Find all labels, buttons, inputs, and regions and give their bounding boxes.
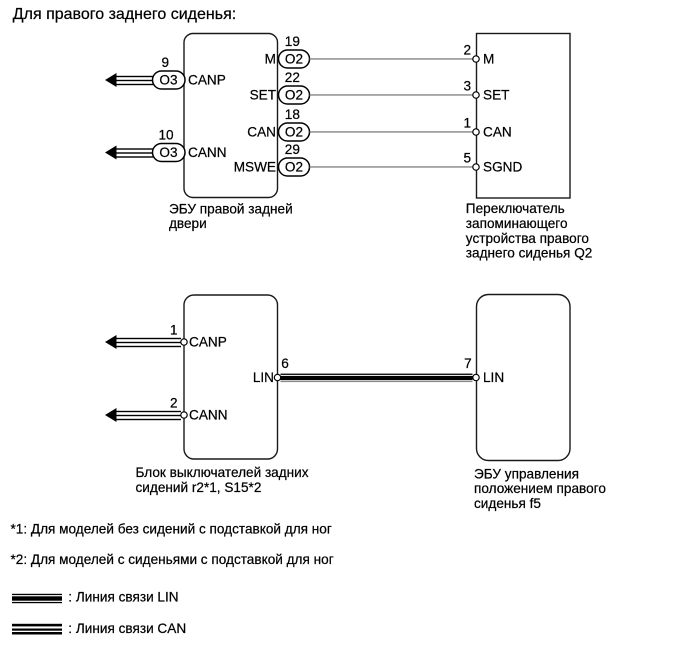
svg-text:MSWE: MSWE (234, 160, 276, 175)
wire M: pin 19 to pin 2 (310, 58, 473, 59)
svg-text:устройства правого: устройства правого (466, 231, 589, 246)
svg-text:сидений r2*1, S15*2: сидений r2*1, S15*2 (136, 480, 262, 495)
svg-text:CANN: CANN (189, 408, 228, 423)
svg-text:2: 2 (463, 43, 471, 58)
node pin 2 (block U2) (181, 412, 187, 418)
connector O2 pin 22 (SET) (279, 86, 310, 104)
block U2: Блок выключателей задних сидений (184, 295, 278, 459)
svg-text:Для правого заднего сиденья:: Для правого заднего сиденья: (13, 6, 236, 23)
block S1: Переключатель запоминающего устройства правого заднего сиденья Q2 (477, 34, 571, 199)
svg-text:CANP: CANP (188, 73, 226, 88)
wire CAN: pin 18 to pin 1 (310, 131, 473, 132)
svg-text:*1: Для моделей без сидений с: *1: Для моделей без сидений с подставкой… (11, 521, 332, 536)
block U1: ЭБУ правой задней двери (184, 34, 278, 198)
node pin 2 (block S1) (473, 56, 479, 62)
svg-text:сиденья f5: сиденья f5 (474, 496, 541, 511)
svg-text:O3: O3 (159, 145, 177, 160)
arrow CANP (CAN line out, pin 1) (105, 335, 181, 349)
svg-text:CAN: CAN (483, 125, 512, 140)
svg-text:9: 9 (162, 55, 170, 70)
wire LIN: pin 6 to pin 7 (281, 374, 473, 383)
svg-text:O3: O3 (159, 73, 177, 88)
svg-text:Блок выключателей задних: Блок выключателей задних (136, 465, 309, 480)
wire MSWE: pin 29 to pin 5 (310, 166, 473, 167)
node pin 5 (block S1) (473, 164, 479, 170)
arrow CANN (CAN line out, pin 10) (105, 146, 153, 160)
svg-text:O2: O2 (285, 125, 303, 140)
svg-text:CANN: CANN (188, 145, 227, 160)
svg-text:запоминающего: запоминающего (466, 216, 568, 231)
node pin 1 (block U2) (181, 339, 187, 345)
arrow CANN (CAN line out, pin 2) (105, 408, 181, 422)
connector O2 pin 19 (M) (279, 50, 310, 68)
svg-text:двери: двери (169, 216, 207, 231)
connector O2 pin 29 (MSWE) (279, 158, 310, 176)
svg-text:18: 18 (285, 107, 300, 122)
svg-text:заднего сиденья Q2: заднего сиденья Q2 (466, 246, 593, 261)
svg-text:7: 7 (464, 356, 472, 371)
legend symbol: CAN line (12, 624, 62, 635)
legend symbol: LIN line (12, 594, 62, 603)
svg-text:5: 5 (463, 151, 471, 166)
connector O3 pin 10 (CANN) (153, 144, 186, 162)
svg-text:SET: SET (250, 88, 276, 103)
svg-text:: Линия связи LIN: : Линия связи LIN (68, 590, 178, 605)
svg-text:1: 1 (170, 323, 178, 338)
svg-text:ЭБУ правой задней: ЭБУ правой задней (169, 202, 293, 217)
svg-text:*2: Для моделей с сиденьями с: *2: Для моделей с сиденьями с подставкой… (11, 552, 334, 567)
node pin 3 (block S1) (473, 92, 479, 98)
wire SET: pin 22 to pin 3 (310, 94, 473, 95)
svg-text:LIN: LIN (253, 370, 274, 385)
svg-text:3: 3 (463, 79, 471, 94)
svg-text:: Линия связи CAN: : Линия связи CAN (68, 621, 186, 636)
svg-text:CANP: CANP (189, 335, 227, 350)
node pin 6 (block U2) (274, 374, 280, 380)
svg-text:1: 1 (463, 116, 471, 131)
svg-text:SET: SET (483, 88, 509, 103)
arrow CANP (CAN line out, pin 9) (105, 73, 153, 87)
svg-text:O2: O2 (285, 160, 303, 175)
svg-text:19: 19 (285, 34, 300, 49)
svg-text:2: 2 (170, 396, 178, 411)
svg-text:29: 29 (285, 142, 300, 157)
svg-text:CAN: CAN (247, 125, 276, 140)
svg-text:ЭБУ управления: ЭБУ управления (474, 466, 579, 481)
connector O2 pin 18 (CAN) (279, 123, 310, 141)
connector O3 pin 9 (CANP) (153, 71, 186, 89)
svg-text:O2: O2 (285, 88, 303, 103)
svg-text:положением правого: положением правого (474, 481, 606, 496)
svg-text:22: 22 (285, 70, 300, 85)
svg-text:10: 10 (159, 128, 175, 143)
svg-text:O2: O2 (285, 52, 303, 67)
node pin 1 (block S1) (473, 129, 479, 135)
svg-text:LIN: LIN (483, 370, 504, 385)
svg-text:M: M (265, 52, 276, 67)
svg-text:SGND: SGND (483, 160, 522, 175)
node pin 7 (block U3) (473, 374, 479, 380)
block U3: ЭБУ управления положением правого сиденья f5 (477, 295, 571, 461)
svg-text:M: M (483, 52, 494, 67)
svg-text:6: 6 (281, 356, 289, 371)
svg-text:Переключатель: Переключатель (466, 201, 565, 216)
